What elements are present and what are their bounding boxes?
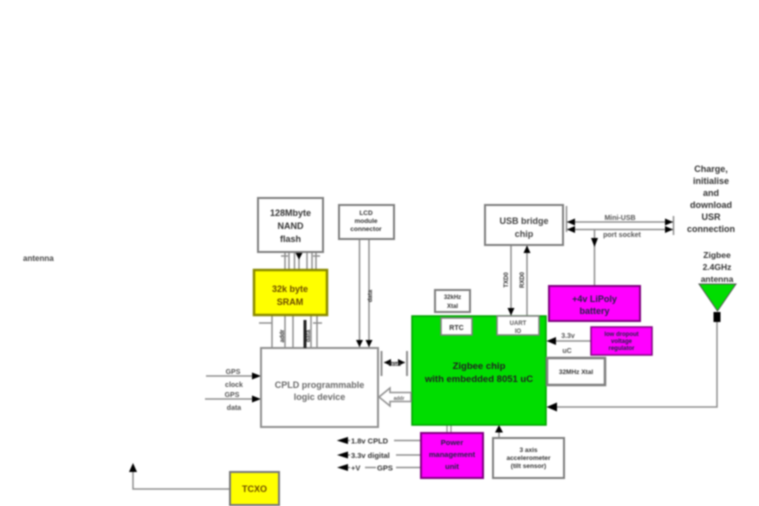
- svg-text:CPLD programmable: CPLD programmable: [275, 380, 365, 390]
- svg-text:3.3v digital: 3.3v digital: [351, 451, 390, 460]
- svg-text:LCD: LCD: [359, 210, 373, 217]
- svg-text:2.4GHz: 2.4GHz: [703, 262, 732, 272]
- svg-text:NAND: NAND: [278, 221, 304, 231]
- svg-text:port socket: port socket: [603, 232, 641, 239]
- svg-text:TCXO: TCXO: [242, 484, 267, 494]
- svg-text:accelerometer: accelerometer: [506, 455, 551, 462]
- svg-text:IO: IO: [515, 329, 522, 335]
- svg-text:unit: unit: [445, 462, 459, 471]
- svg-text:GPS: GPS: [377, 464, 393, 473]
- svg-text:3.3v: 3.3v: [561, 333, 575, 340]
- svg-text:USR: USR: [701, 212, 721, 222]
- svg-text:32k byte: 32k byte: [272, 284, 308, 294]
- svg-text:GPS: GPS: [226, 369, 241, 376]
- svg-text:Mini-USB: Mini-USB: [604, 215, 635, 222]
- svg-text:uC: uC: [562, 348, 571, 355]
- svg-text:antenna: antenna: [701, 274, 734, 284]
- svg-text:1.8v CPLD: 1.8v CPLD: [351, 437, 389, 446]
- svg-text:low dropout: low dropout: [604, 332, 638, 338]
- svg-text:Zigbee chip: Zigbee chip: [453, 361, 506, 372]
- svg-text:Charge,: Charge,: [694, 164, 728, 174]
- svg-text:management: management: [429, 450, 476, 459]
- svg-text:voltage: voltage: [611, 339, 633, 345]
- svg-text:GPS: GPS: [225, 392, 240, 399]
- svg-text:regulator: regulator: [608, 346, 635, 352]
- svg-text:Power: Power: [441, 438, 464, 447]
- svg-text:chip: chip: [515, 229, 534, 239]
- svg-text:connection: connection: [687, 224, 735, 234]
- svg-text:TXD0: TXD0: [504, 272, 510, 288]
- svg-text:RXD0: RXD0: [520, 271, 526, 288]
- svg-text:RTC: RTC: [449, 325, 463, 332]
- svg-text:with embedded 8051 uC: with embedded 8051 uC: [424, 374, 533, 385]
- svg-text:battery: battery: [579, 306, 609, 316]
- svg-text:addr: addr: [394, 396, 405, 402]
- svg-text:clock: clock: [225, 382, 243, 389]
- svg-text:antenna: antenna: [23, 254, 54, 263]
- svg-text:logic device: logic device: [294, 392, 346, 402]
- svg-text:data: data: [388, 362, 401, 368]
- svg-text:data: data: [227, 405, 242, 412]
- svg-text:(tilt sensor): (tilt sensor): [511, 463, 546, 470]
- svg-text:module: module: [354, 218, 377, 225]
- svg-text:Zigbee: Zigbee: [703, 250, 731, 260]
- svg-text:Xtal: Xtal: [447, 304, 458, 310]
- svg-text:UART: UART: [510, 321, 527, 327]
- svg-text:SRAM: SRAM: [277, 297, 304, 307]
- svg-text:+V: +V: [351, 464, 360, 473]
- svg-text:+4v LiPoly: +4v LiPoly: [572, 294, 617, 304]
- svg-text:32kHz: 32kHz: [444, 295, 461, 301]
- svg-text:data: data: [306, 329, 312, 342]
- svg-text:download: download: [690, 200, 732, 210]
- svg-text:addr: addr: [280, 329, 286, 343]
- svg-text:connector: connector: [350, 226, 382, 233]
- svg-text:initialise: initialise: [693, 176, 729, 186]
- svg-text:32MHz Xtal: 32MHz Xtal: [559, 369, 594, 376]
- svg-text:and: and: [703, 188, 719, 198]
- svg-text:USB bridge: USB bridge: [499, 216, 548, 226]
- svg-text:flash: flash: [280, 234, 301, 244]
- svg-text:128Mbyte: 128Mbyte: [270, 208, 311, 218]
- svg-text:3 axis: 3 axis: [519, 447, 537, 454]
- svg-text:data: data: [368, 289, 374, 302]
